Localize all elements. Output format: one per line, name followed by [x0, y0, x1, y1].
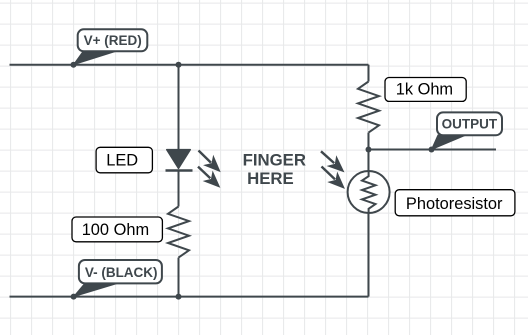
svg-text:HERE: HERE — [247, 169, 294, 188]
svg-text:100 Ohm: 100 Ohm — [82, 221, 149, 239]
callout V- (BLACK) — [74, 260, 162, 297]
label Photoresistor — [395, 190, 515, 216]
photoresistor incident-light arrow 2 — [322, 167, 345, 189]
svg-text:FINGER: FINGER — [243, 151, 306, 170]
resistor R2 1k Ohm zigzag — [358, 82, 379, 133]
junction OUTPUT node — [366, 147, 372, 153]
wire V- bottom rail — [10, 296, 369, 298]
photoresistor incident-light arrow 1 — [321, 151, 344, 171]
svg-text:Photoresistor: Photoresistor — [406, 195, 503, 213]
wire LED branch upper lead — [178, 65, 180, 150]
photoresistor LDR1 inner zigzag — [362, 172, 376, 214]
svg-text:V- (BLACK): V- (BLACK) — [85, 265, 158, 280]
label LED — [96, 147, 152, 173]
wire V+ top rail — [10, 64, 369, 66]
wire photoresistor to bottom rail — [368, 213, 370, 297]
wire OUTPUT net — [369, 149, 497, 151]
text FINGER HERE — [243, 151, 306, 189]
svg-text:OUTPUT: OUTPUT — [442, 117, 498, 132]
node V- anchor dot — [71, 294, 77, 300]
LED emission arrow 2 — [198, 167, 219, 187]
wire output node to photoresistor — [368, 150, 370, 172]
callout V+ (RED) — [74, 29, 148, 64]
wire R2 bottom lead to output node — [368, 133, 370, 150]
svg-text:1k Ohm: 1k Ohm — [396, 80, 453, 98]
junction LED branch / V+ rail — [176, 62, 182, 68]
junction R1 branch / V- rail — [176, 294, 182, 300]
LED emission arrow 1 — [199, 151, 220, 172]
wire top lead of R2 (1k) — [368, 65, 370, 82]
LED D1 triangle — [167, 150, 191, 169]
wire LED cathode to R1 — [178, 171, 180, 207]
label 100 Ohm — [72, 217, 162, 242]
photoresistor LDR1 body circle — [348, 171, 390, 213]
svg-text:LED: LED — [106, 152, 138, 170]
label 1k Ohm — [385, 78, 466, 102]
wire R1 bottom lead — [178, 258, 180, 297]
svg-text:V+ (RED): V+ (RED) — [84, 33, 142, 48]
callout OUTPUT — [432, 112, 503, 149]
node V+ anchor dot — [71, 62, 77, 68]
LED D1 cathode bar — [166, 169, 193, 172]
node OUTPUT anchor dot — [429, 147, 435, 153]
resistor R1 100 Ohm zigzag — [168, 207, 189, 258]
